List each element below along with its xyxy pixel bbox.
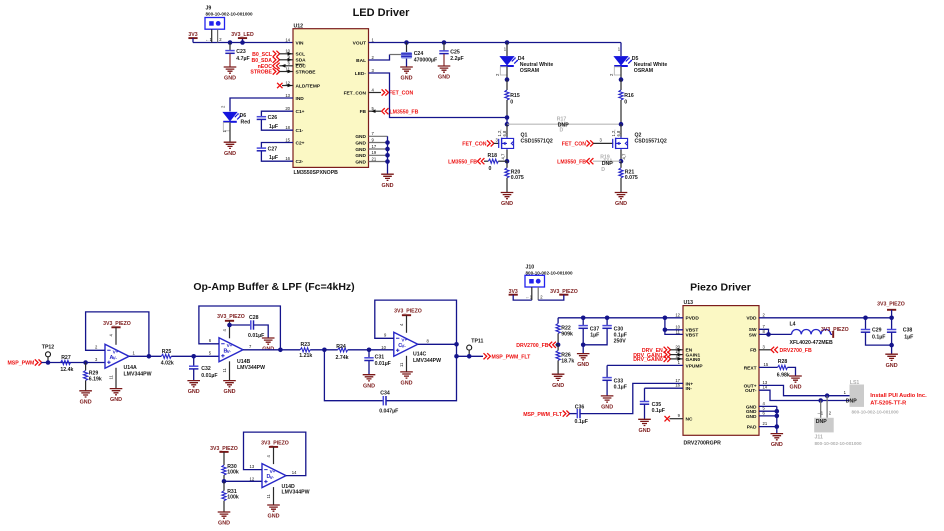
resistor R28 — [759, 359, 796, 379]
ground under C31 — [363, 375, 376, 390]
node R23-R24-C34 — [322, 348, 327, 353]
svg-text:OSRAM: OSRAM — [520, 68, 539, 74]
U14D V- ground — [266, 487, 274, 505]
svg-text:FET_CON: FET_CON — [389, 91, 413, 97]
svg-text:DNP: DNP — [816, 419, 827, 425]
node Q1 source — [505, 159, 510, 164]
connector J11 DNP — [814, 418, 862, 446]
svg-text:C32: C32 — [201, 366, 211, 372]
svg-text:2.2µF: 2.2µF — [450, 56, 463, 62]
U13 pin names — [686, 316, 758, 431]
svg-text:7: 7 — [372, 131, 375, 136]
svg-text:GND: GND — [746, 414, 757, 420]
ground under R20 — [501, 193, 514, 208]
svg-text:2: 2 — [95, 345, 98, 350]
LED D4 — [495, 43, 554, 77]
label Install PUI Audio — [870, 393, 927, 406]
ground under C24 — [400, 67, 413, 82]
svg-text:STROBE: STROBE — [296, 69, 317, 75]
resistor R15 — [505, 80, 520, 118]
svg-text:4: 4 — [399, 323, 404, 326]
svg-text:VOUT: VOUT — [353, 40, 366, 46]
svg-text:DRV2700_FB: DRV2700_FB — [516, 343, 548, 349]
capacitor C31 — [364, 350, 391, 375]
svg-text:Install PUI Audio Inc.: Install PUI Audio Inc. — [870, 393, 927, 399]
node Q2 drain R17 — [619, 122, 624, 127]
svg-text:CSD15571Q2: CSD15571Q2 — [635, 139, 667, 145]
power 3V3_PIEZO at L4 — [821, 327, 849, 338]
node R24-C31 — [367, 348, 372, 353]
svg-text:U14A: U14A — [124, 365, 138, 371]
svg-text:3V3_PIEZO: 3V3_PIEZO — [821, 327, 849, 333]
svg-text:1µF: 1µF — [269, 124, 278, 130]
node U14B V+ / C28 — [227, 323, 232, 328]
net label B0_SCL — [252, 51, 293, 58]
svg-text:OSRAM: OSRAM — [634, 68, 653, 74]
ground under U14A — [110, 389, 123, 404]
svg-text:C23: C23 — [236, 49, 246, 55]
svg-text:6,8: 6,8 — [616, 130, 621, 136]
svg-text:PVDD: PVDD — [686, 316, 700, 322]
resistor R31 — [222, 481, 239, 511]
svg-text:0.01µF: 0.01µF — [375, 361, 391, 367]
svg-text:LMV344PW: LMV344PW — [237, 365, 265, 371]
svg-text:GND: GND — [355, 153, 366, 159]
resistor R22 — [556, 318, 573, 345]
svg-text:1µF: 1µF — [590, 333, 599, 339]
node U14C out — [454, 342, 459, 347]
svg-text:0.1µF: 0.1µF — [652, 408, 665, 414]
svg-text:5: 5 — [209, 351, 212, 356]
ground under R21 — [615, 193, 628, 208]
U12 right pin numbers — [372, 37, 377, 161]
capacitor C24 (polarized) — [401, 43, 437, 67]
ground under C37 — [577, 354, 590, 369]
svg-text:3: 3 — [372, 68, 375, 73]
svg-text:R28: R28 — [778, 359, 788, 365]
svg-text:FB: FB — [750, 348, 757, 354]
svg-text:0: 0 — [489, 166, 492, 172]
net label MSP_PWM_FLT piezo input — [523, 411, 569, 419]
svg-text:0.01µF: 0.01µF — [201, 373, 217, 379]
node VDD-C38 — [889, 316, 894, 321]
svg-text:4: 4 — [222, 329, 227, 332]
no-connect X on NC pin 9 — [665, 416, 684, 421]
wire D5 cathode — [620, 67, 622, 80]
svg-text:∼1: ∼1 — [817, 411, 824, 416]
net label MSP_PWM input — [7, 359, 41, 366]
wire SW pins to L4 — [759, 329, 792, 336]
power 3V3_PIEZO at U14C — [394, 309, 422, 333]
wire PVDD rail — [558, 317, 683, 319]
svg-text:IND: IND — [296, 96, 305, 102]
svg-text:SW: SW — [749, 327, 757, 333]
svg-text:4,7: 4,7 — [621, 153, 626, 159]
capacitor C34 — [379, 390, 398, 414]
svg-text:3V3_PIEZO: 3V3_PIEZO — [261, 441, 289, 447]
power 3V3_PIEZO at U14D — [261, 441, 289, 465]
svg-text:9: 9 — [372, 137, 375, 142]
svg-text:REXT: REXT — [744, 365, 757, 371]
op-amp U14B — [219, 338, 265, 371]
svg-text:3: 3 — [763, 344, 766, 349]
wire VDD rail — [759, 317, 892, 319]
svg-text:2: 2 — [829, 411, 832, 416]
power 3V3_PIEZO at R30 — [210, 446, 238, 465]
svg-text:1: 1 — [844, 390, 847, 395]
svg-text:AT-5205-TT-R: AT-5205-TT-R — [870, 401, 906, 407]
svg-text:Q1: Q1 — [521, 133, 528, 139]
svg-text:6: 6 — [209, 338, 212, 343]
svg-text:GND: GND — [355, 134, 366, 140]
svg-text:C34: C34 — [380, 390, 390, 396]
ground under U12 GND bus — [381, 174, 394, 189]
capacitor C37 — [579, 318, 600, 354]
wire Q1 source — [506, 150, 508, 161]
svg-text:6.19k: 6.19k — [89, 376, 102, 382]
svg-text:D5: D5 — [632, 56, 639, 62]
svg-text:1: 1 — [222, 130, 227, 133]
svg-text:7: 7 — [249, 344, 252, 349]
svg-text:CSD15571Q2: CSD15571Q2 — [521, 139, 553, 145]
svg-text:LM3550_FB: LM3550_FB — [390, 109, 419, 115]
svg-text:3V3_PIEZO: 3V3_PIEZO — [394, 309, 422, 315]
U14D feedback wire — [244, 432, 306, 481]
svg-text:9: 9 — [384, 333, 387, 338]
svg-text:R29: R29 — [89, 370, 99, 376]
svg-text:0.1µF: 0.1µF — [575, 419, 588, 425]
wire J11 drops — [817, 396, 832, 418]
svg-text:0.047µF: 0.047µF — [379, 409, 398, 415]
svg-text:15: 15 — [285, 137, 290, 142]
node U14A out — [147, 354, 152, 359]
wire input to U14A — [41, 362, 105, 364]
svg-text:250V: 250V — [614, 339, 627, 345]
power 3V3 (LED section) — [188, 32, 197, 42]
svg-text:C36: C36 — [575, 404, 585, 410]
node D5-R16 — [619, 77, 624, 82]
svg-text:FET_CON: FET_CON — [562, 142, 586, 148]
node PVDD-VBST — [663, 316, 668, 321]
svg-text:FET_CON: FET_CON — [462, 142, 486, 148]
svg-text:DRV_GAIN0: DRV_GAIN0 — [633, 357, 663, 363]
svg-text:PAD: PAD — [747, 425, 757, 431]
svg-text:14: 14 — [292, 470, 297, 475]
net label DRV_EN — [642, 347, 683, 354]
svg-text:C27: C27 — [268, 147, 278, 153]
no-connect X on ALD/TEMP pin 12 — [277, 83, 293, 88]
ground under U13 — [771, 434, 784, 449]
svg-text:D: D — [601, 167, 605, 173]
U14C V- ground — [399, 356, 407, 372]
svg-text:LED-: LED- — [355, 71, 367, 77]
node OUT- to J11 — [818, 398, 823, 403]
svg-text:2: 2 — [219, 37, 222, 42]
svg-text:4: 4 — [266, 455, 271, 458]
svg-text:3: 3 — [600, 137, 603, 142]
node TP12 — [46, 360, 51, 365]
svg-text:C: C — [398, 343, 402, 349]
svg-text:0.01µF: 0.01µF — [248, 333, 264, 339]
svg-text:12.4k: 12.4k — [60, 367, 73, 373]
connector J10 — [525, 264, 573, 300]
capacitor C27 — [257, 143, 293, 162]
wire VOUT bus — [369, 42, 622, 44]
wire OUT- — [759, 390, 850, 400]
svg-text:R19: R19 — [600, 155, 610, 161]
svg-text:LED Driver: LED Driver — [353, 7, 411, 19]
svg-text:3V3_PIEZO: 3V3_PIEZO — [877, 301, 905, 307]
test point TP11 — [467, 339, 484, 359]
svg-text:1: 1 — [678, 360, 681, 365]
wire VPUMP — [607, 364, 683, 366]
svg-text:C38: C38 — [903, 328, 913, 334]
svg-text:LMV344PW: LMV344PW — [413, 358, 441, 364]
capacitor C36 — [569, 404, 588, 425]
svg-text:R15: R15 — [510, 93, 520, 99]
svg-text:3: 3 — [95, 357, 98, 362]
capacitor C35 — [640, 388, 665, 419]
svg-text:VDD: VDD — [746, 316, 757, 322]
node D4-R15 — [505, 77, 510, 82]
svg-text:13: 13 — [250, 464, 255, 469]
svg-text:2.74k: 2.74k — [336, 355, 349, 361]
resistor R23 — [299, 342, 337, 359]
ground under D6 — [224, 142, 237, 157]
svg-text:Red: Red — [241, 120, 251, 126]
U13 pin numbers — [675, 312, 769, 426]
wire IND to D6 — [230, 98, 293, 111]
ground under C23 — [224, 67, 237, 82]
svg-text:0: 0 — [510, 100, 513, 106]
wire C34 loop — [324, 344, 456, 400]
resistor R24 — [336, 344, 394, 361]
svg-text:11: 11 — [399, 362, 404, 367]
ground under R29 — [79, 391, 92, 406]
svg-text:A: A — [110, 355, 114, 361]
svg-text:0.1µF: 0.1µF — [614, 385, 627, 391]
capacitor C26 — [257, 111, 293, 130]
ground under C35 — [638, 419, 651, 434]
svg-text:2: 2 — [495, 73, 500, 76]
svg-text:C30: C30 — [614, 327, 624, 333]
connector J9 — [205, 6, 253, 43]
net label LM3550_FB at U12 pin 5 — [369, 108, 419, 115]
svg-text:FET_CON: FET_CON — [344, 90, 367, 96]
resistor R25 — [161, 349, 219, 366]
svg-text:16: 16 — [285, 156, 290, 161]
svg-text:C31: C31 — [375, 354, 385, 360]
svg-text:C28: C28 — [249, 315, 259, 321]
ground under U14B — [223, 381, 236, 396]
svg-text:9: 9 — [678, 413, 681, 418]
svg-text:R23: R23 — [301, 342, 311, 348]
svg-text:4,7: 4,7 — [501, 153, 506, 159]
svg-text:LM3550_FB: LM3550_FB — [448, 159, 477, 165]
svg-text:U12: U12 — [294, 23, 304, 29]
chip U13 DRV2700RGPR — [683, 300, 759, 447]
wire to R17 level — [506, 118, 508, 125]
svg-text:MSP_PWM_FLT: MSP_PWM_FLT — [523, 412, 563, 418]
svg-text:LMV344PW: LMV344PW — [124, 371, 152, 377]
svg-text:GND: GND — [355, 140, 366, 146]
node VOUT-C25 — [442, 40, 447, 45]
net label B0_SDA — [252, 57, 293, 64]
net label DRV_GAIN0 — [633, 356, 683, 363]
wire Q2 source — [620, 150, 622, 161]
wire Q1 drain down — [506, 124, 508, 137]
svg-text:11: 11 — [222, 367, 227, 372]
op-amp U14D — [262, 464, 310, 496]
wire D6 cathode to ground — [229, 123, 231, 143]
net label DRV2700_FB at divider — [516, 342, 558, 349]
svg-text:LMV344PW: LMV344PW — [282, 489, 310, 495]
svg-text:10: 10 — [381, 345, 386, 350]
svg-text:VPUMP: VPUMP — [686, 363, 704, 369]
svg-text:NC: NC — [686, 417, 693, 423]
svg-text:C25: C25 — [450, 49, 460, 55]
svg-text:100k: 100k — [227, 495, 239, 501]
net label FET_CON at U12 pin 4 — [369, 89, 414, 96]
svg-text:R16: R16 — [624, 93, 634, 99]
svg-text:6.98k: 6.98k — [777, 372, 790, 378]
svg-text:800-10-002-10-001000: 800-10-002-10-001000 — [852, 409, 899, 414]
svg-text:VIN: VIN — [296, 40, 305, 46]
op-amp U14A — [105, 344, 152, 377]
resistor R21 — [619, 161, 638, 192]
ground under C32 — [187, 381, 200, 396]
svg-text:GAIN0: GAIN0 — [686, 357, 701, 363]
ground under C33 — [601, 396, 614, 411]
resistor R18 — [484, 153, 507, 172]
wire IN- — [645, 387, 684, 389]
resistor R16 — [619, 80, 634, 125]
ground under U14D — [267, 505, 280, 520]
node R27-R29 — [83, 360, 88, 365]
svg-text:14: 14 — [285, 37, 290, 42]
wire U14B output — [243, 349, 300, 351]
node U14B out — [278, 348, 283, 353]
node R30-R31 — [222, 479, 227, 484]
svg-text:4: 4 — [372, 87, 375, 92]
capacitor C38 — [887, 318, 913, 354]
ground under R28 — [789, 376, 802, 391]
svg-text:2: 2 — [372, 55, 375, 60]
ground under U14C — [400, 372, 413, 387]
svg-text:12: 12 — [675, 312, 680, 317]
svg-text:MSP_PWM: MSP_PWM — [7, 361, 34, 367]
svg-text:VBST: VBST — [686, 332, 699, 338]
svg-text:C26: C26 — [268, 115, 278, 121]
svg-text:1: 1 — [133, 351, 136, 356]
ground under R31 — [218, 512, 231, 527]
svg-text:Piezo Driver: Piezo Driver — [690, 282, 751, 294]
node VOUT-D4 — [505, 40, 510, 45]
svg-text:EOC: EOC — [296, 64, 307, 70]
svg-text:4.7µF: 4.7µF — [236, 56, 249, 62]
svg-text:100k: 100k — [227, 470, 239, 476]
svg-text:R25: R25 — [162, 349, 172, 355]
node DRV2700_FB divider — [556, 343, 561, 348]
svg-text:DRV2700RGPR: DRV2700RGPR — [684, 441, 722, 447]
U12 pin names — [295, 40, 366, 165]
U14A feedback wire — [86, 312, 149, 362]
svg-text:19: 19 — [372, 150, 377, 155]
capacitor C30 — [583, 318, 627, 345]
node C29-C38 gnd — [889, 343, 894, 348]
svg-text:21: 21 — [372, 156, 377, 161]
svg-text:18: 18 — [285, 125, 290, 130]
capacitor C28 — [230, 315, 269, 339]
power 3V3 at J10 — [509, 289, 532, 300]
wire Q2 drain down — [620, 124, 622, 137]
svg-text:8: 8 — [427, 338, 430, 343]
resistor R26 — [556, 345, 574, 374]
svg-text:ALD/TEMP: ALD/TEMP — [296, 83, 321, 89]
node R25-C32 — [191, 354, 196, 359]
net label LM3550_FB at R19 — [557, 158, 593, 165]
svg-text:800-10-002-10-001000: 800-10-002-10-001000 — [815, 441, 862, 446]
svg-text:3V3_PIEZO: 3V3_PIEZO — [217, 314, 245, 320]
U14B V- ground — [222, 361, 230, 380]
U13 GND bus — [759, 406, 779, 433]
svg-text:DRV2700_FB: DRV2700_FB — [780, 348, 812, 354]
wire output to label — [457, 355, 484, 357]
svg-text:6,8: 6,8 — [502, 130, 507, 136]
svg-text:2: 2 — [609, 73, 614, 76]
svg-text:BAL: BAL — [356, 58, 366, 64]
resistor R19 DNP — [593, 155, 621, 173]
svg-text:3V3_LED: 3V3_LED — [231, 32, 254, 38]
net label FET_CON at Q1 gate — [462, 137, 499, 147]
capacitor C29 — [861, 318, 892, 345]
wire R30/R31 to U14D — [224, 480, 262, 482]
node OUT+ to J11 — [825, 393, 830, 398]
svg-text:←1: ←1 — [205, 37, 212, 42]
svg-text:0.075: 0.075 — [511, 175, 524, 181]
node PVDD-C30 — [605, 316, 610, 321]
svg-text:12: 12 — [250, 476, 255, 481]
node PVDD-C37 — [581, 316, 586, 321]
resistor R17 DNP — [507, 117, 621, 134]
svg-text:470000µF: 470000µF — [414, 58, 437, 64]
svg-text:1µF: 1µF — [904, 335, 913, 341]
svg-text:0.1µF: 0.1µF — [872, 335, 885, 341]
svg-text:U14C: U14C — [413, 352, 427, 358]
svg-text:C33: C33 — [614, 379, 624, 385]
node TP11 junction — [454, 354, 459, 359]
net label DRV_GAIN1 — [633, 352, 683, 359]
svg-text:2: 2 — [763, 312, 766, 317]
net label nEOC — [258, 63, 293, 70]
svg-text:OUT-: OUT- — [745, 388, 757, 394]
svg-text:909k: 909k — [561, 331, 573, 337]
capacitor C32 — [189, 356, 218, 380]
svg-text:C29: C29 — [872, 328, 882, 334]
wire 3V3 to VIN — [193, 42, 293, 44]
test point TP12 — [42, 345, 55, 363]
speaker LS1 DNP — [844, 380, 899, 414]
svg-text:U14B: U14B — [237, 359, 251, 365]
svg-text:←1: ←1 — [526, 295, 533, 300]
svg-text:15: 15 — [764, 362, 769, 367]
LED D6 Red — [221, 105, 251, 133]
op-amp U14C — [394, 332, 441, 364]
capacitor C33 — [602, 365, 627, 395]
power 3V3_PIEZO at J10 — [538, 289, 578, 300]
power 3V3_LED — [231, 32, 254, 45]
svg-text:4: 4 — [108, 334, 113, 337]
